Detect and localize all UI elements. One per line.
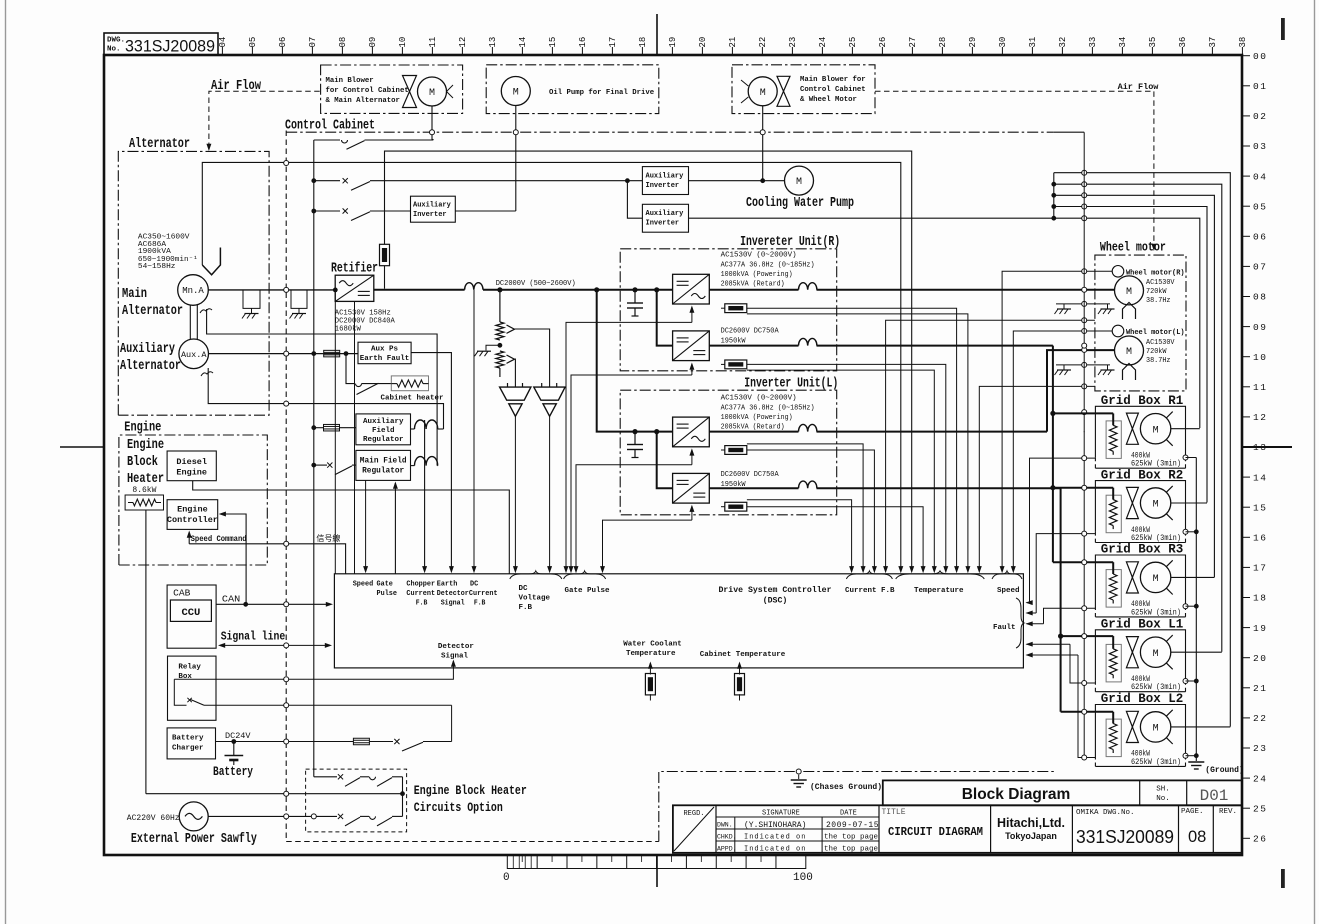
fault wire R2	[1036, 534, 1095, 613]
svg-text:8.6kW: 8.6kW	[132, 486, 156, 495]
svg-text:PAGE.: PAGE.	[1181, 808, 1204, 816]
wire: DC voltage fb B	[549, 416, 551, 571]
svg-text:Invereter Unit(R): Invereter Unit(R)	[740, 235, 840, 250]
ground rail motor R	[1056, 303, 1110, 305]
svg-text:Inverter: Inverter	[413, 211, 447, 219]
svg-text:331SJ20089: 331SJ20089	[1076, 826, 1174, 847]
grid box R3 outline	[1095, 555, 1185, 606]
main blower (right) motor M	[748, 77, 777, 106]
svg-text:& Main Alternator: & Main Alternator	[326, 97, 400, 105]
svg-text:the top page: the top page	[824, 846, 878, 854]
wire: dc bus drop to inverter L	[594, 287, 599, 292]
svg-text:720kW: 720kW	[1146, 288, 1167, 296]
svg-text:21: 21	[728, 37, 738, 48]
auxiliary alternator Aux.A	[179, 339, 209, 369]
svg-text:Diesel: Diesel	[176, 457, 207, 467]
svg-text:Earth Fault: Earth Fault	[360, 355, 410, 363]
ground chain node R3	[1183, 604, 1188, 609]
svg-text:10: 10	[1253, 352, 1267, 363]
svg-text:Gate: Gate	[377, 581, 394, 589]
svg-text:SH.: SH.	[1156, 786, 1170, 794]
svg-text:DC: DC	[470, 581, 479, 589]
voltage detector chopper A	[507, 383, 509, 387]
gate wire L lower	[691, 506, 693, 520]
DC voltage FB brace	[510, 571, 562, 579]
svg-text:AC1530V (0~2000V): AC1530V (0~2000V)	[721, 395, 797, 403]
svg-text:36: 36	[1178, 37, 1188, 48]
air flow dashed duct left	[209, 91, 321, 148]
svg-text:SIGNATURE: SIGNATURE	[762, 810, 800, 818]
svg-text:Alternator: Alternator	[122, 304, 183, 319]
wire: retard output R to grid boxes	[709, 345, 798, 347]
svg-text:2085kVA (Retard): 2085kVA (Retard)	[721, 280, 785, 288]
wire+coil: main field output	[411, 465, 415, 467]
main alternator Mn.A	[178, 275, 209, 306]
svg-text:DC24V: DC24V	[225, 731, 251, 741]
wire: temp L	[979, 386, 1095, 571]
svg-text:625kW (3min): 625kW (3min)	[1131, 684, 1181, 692]
svg-text:331SJ20089: 331SJ20089	[125, 37, 215, 56]
cooling water pump motor M	[785, 166, 814, 195]
wire: Mn.A output to rectifier	[209, 289, 336, 291]
svg-text:400kW: 400kW	[1131, 751, 1150, 759]
svg-text:for Control Cabinet: for Control Cabinet	[326, 87, 409, 95]
svg-text:Alternator: Alternator	[120, 359, 181, 374]
main field regulator box	[356, 450, 411, 480]
signature table	[716, 816, 879, 818]
wire: aux inverter top to cooling pump motor	[689, 180, 785, 182]
auxiliary inverter box (mid bottom)	[642, 204, 688, 232]
relay box	[168, 656, 217, 720]
svg-text:35: 35	[1148, 37, 1158, 48]
title block: Block Diagram row	[883, 780, 1242, 805]
fuse battery	[353, 738, 369, 745]
dc link capacitor L	[632, 429, 637, 434]
svg-text:Inverter: Inverter	[646, 220, 680, 228]
wire: gate pulse up to main field regulator	[394, 483, 396, 574]
inverter unit L dash-dot box	[620, 390, 837, 515]
svg-text:AC377A 36.8Hz (0~185Hz): AC377A 36.8Hz (0~185Hz)	[721, 261, 815, 269]
svg-text:Engine: Engine	[176, 468, 207, 478]
Speed brace right	[992, 571, 1022, 579]
svg-text:F.B: F.B	[519, 604, 533, 612]
svg-text:Signal: Signal	[441, 653, 469, 661]
svg-text:Engine: Engine	[127, 438, 164, 453]
CCU box	[170, 600, 211, 621]
oil pump box	[486, 65, 659, 114]
ground chain vertical	[1195, 458, 1197, 762]
svg-text:Auxiliary: Auxiliary	[646, 173, 685, 181]
CAB box	[167, 585, 216, 648]
wire: aux feed A (dc fused)	[384, 266, 386, 270]
svg-text:400kW: 400kW	[1131, 527, 1150, 535]
svg-text:07: 07	[308, 37, 318, 48]
svg-text:Current: Current	[406, 590, 435, 598]
svg-text:REV.: REV.	[1219, 808, 1237, 816]
main blower (left) motor M	[418, 77, 447, 106]
svg-text:AC1530V (0~2000V): AC1530V (0~2000V)	[721, 252, 797, 260]
svg-text:04: 04	[218, 37, 228, 48]
svg-text:TITLE: TITLE	[882, 808, 906, 817]
svg-text:08: 08	[338, 37, 348, 48]
wire: sensor L lower pair	[747, 500, 852, 571]
svg-text:Detector: Detector	[437, 590, 469, 598]
svg-text:Chopper: Chopper	[406, 581, 435, 589]
current sensor R upper	[725, 304, 747, 313]
svg-text:23: 23	[788, 37, 798, 48]
svg-text:Indicated on: Indicated on	[744, 834, 806, 842]
svg-text:27: 27	[908, 37, 918, 48]
wire: blower L motor to cabinet	[431, 106, 433, 140]
wire: alternator sense to DSC	[333, 288, 338, 293]
svg-text:24: 24	[818, 37, 828, 48]
wire: retard output L to grid boxes	[709, 487, 798, 489]
grid fan R2	[1126, 487, 1138, 518]
air intake funnel	[202, 248, 220, 275]
switch: cooling pump supply	[311, 178, 316, 183]
option row1 switches	[314, 776, 337, 778]
svg-text:CIRCUIT DIAGRAM: CIRCUIT DIAGRAM	[888, 826, 983, 839]
page edge lines	[5, 0, 7, 924]
svg-text:M: M	[1153, 724, 1159, 735]
svg-text:04: 04	[1253, 171, 1267, 182]
grid resistor R2	[1106, 495, 1121, 533]
chopper resistor chain	[497, 287, 502, 292]
svg-text:32: 32	[1058, 37, 1068, 48]
svg-text:F.B: F.B	[474, 600, 486, 608]
svg-text:Signal: Signal	[441, 600, 465, 608]
wire: CAN to engine controller	[221, 514, 246, 604]
svg-text:M: M	[796, 177, 802, 188]
svg-text:26: 26	[1253, 834, 1267, 845]
wire: fan motor R2 supply	[1171, 502, 1207, 504]
oil pump motor M	[501, 77, 530, 106]
svg-text:& Wheel Motor: & Wheel Motor	[800, 96, 857, 104]
svg-text:Cabinet Temperature: Cabinet Temperature	[700, 651, 786, 659]
dc feed to L lower	[654, 429, 659, 434]
svg-text:Signal line: Signal line	[221, 630, 286, 644]
shaft hat R	[1123, 303, 1136, 320]
svg-text:Regulator: Regulator	[363, 436, 404, 444]
gate wire R lower	[691, 364, 693, 375]
svg-text:DATE: DATE	[840, 810, 857, 818]
wrap wire w5 (grid R1 fan)	[1054, 218, 1200, 428]
svg-text:06: 06	[278, 37, 288, 48]
cabinet heater resistor	[391, 376, 428, 391]
svg-text:Block Diagram: Block Diagram	[962, 786, 1071, 803]
svg-text:Charger: Charger	[172, 745, 204, 753]
ground trunk vertical	[1054, 131, 1084, 133]
fault wire L1	[1070, 644, 1095, 683]
svg-text:Main Field: Main Field	[360, 458, 407, 466]
svg-text:20: 20	[698, 37, 708, 48]
voltage detector chopper B	[541, 383, 543, 387]
svg-text:Indicated on: Indicated on	[744, 846, 806, 854]
svg-text:15: 15	[548, 37, 558, 48]
grid box R2 outline	[1095, 481, 1185, 532]
svg-text:M: M	[1126, 287, 1132, 298]
svg-text:Speed Command: Speed Command	[191, 534, 247, 544]
inverter block L upper (DC-AC)	[673, 417, 710, 447]
svg-text:REGD.: REGD.	[683, 810, 704, 818]
wire: Mn.A field lower	[207, 309, 438, 466]
svg-text:Auxiliary: Auxiliary	[363, 418, 404, 426]
svg-text:625kW (3min): 625kW (3min)	[1131, 759, 1181, 767]
svg-text:24: 24	[1253, 773, 1267, 784]
svg-text:31: 31	[1028, 37, 1038, 48]
svg-text:AC377A 36.8Hz (0~185Hz): AC377A 36.8Hz (0~185Hz)	[721, 404, 815, 412]
svg-text:17: 17	[608, 37, 618, 48]
main blower (right) fan	[777, 76, 790, 106]
grid resistor L2	[1106, 719, 1121, 757]
cabinet temperature sensor	[739, 663, 741, 668]
svg-text:Main Blower for: Main Blower for	[800, 76, 866, 84]
wire: drop to aux inverter bottom	[625, 178, 630, 183]
svg-text:Mn.A: Mn.A	[182, 286, 204, 296]
svg-text:M: M	[1153, 425, 1159, 436]
engine block heater option box	[306, 769, 407, 832]
svg-text:(Ground): (Ground)	[1205, 766, 1243, 775]
svg-text:External Power Sawfly: External Power Sawfly	[131, 832, 257, 847]
svg-text:18: 18	[1253, 593, 1267, 604]
svg-text:Control Cabinet: Control Cabinet	[800, 86, 866, 94]
brush mark Mn.A	[200, 309, 212, 313]
wrap wire w2 (grid L1 fan)	[1054, 184, 1222, 652]
svg-text:54~158Hz: 54~158Hz	[138, 263, 176, 271]
svg-text:Drive System Controller: Drive System Controller	[718, 585, 831, 595]
svg-text:400kW: 400kW	[1131, 453, 1150, 461]
svg-text:25: 25	[848, 37, 858, 48]
(Ground) symbol	[1188, 762, 1204, 769]
svg-text:Current F.B: Current F.B	[845, 587, 895, 595]
svg-text:Box: Box	[178, 673, 192, 681]
svg-text:TokyoJapan: TokyoJapan	[1005, 831, 1057, 841]
top ruler ticks 04-38	[218, 37, 1248, 55]
svg-text:DWG.: DWG.	[107, 37, 125, 45]
svg-text:No.: No.	[107, 46, 121, 54]
wire: dc current fb tap	[473, 290, 475, 571]
svg-text:Wheel motor(R): Wheel motor(R)	[1126, 270, 1185, 278]
svg-text:Gate Pulse: Gate Pulse	[565, 587, 611, 595]
fan bus riser	[1053, 173, 1055, 219]
ground chain node R1	[1183, 455, 1188, 460]
svg-text:12: 12	[1253, 412, 1267, 423]
right ruler ticks 00-26	[1242, 51, 1267, 845]
svg-text:(DSC): (DSC)	[763, 596, 788, 606]
grid box L1 outline	[1095, 630, 1185, 681]
svg-text:09: 09	[1253, 322, 1267, 333]
battery charger box	[167, 728, 215, 759]
wheel motor L M	[1115, 336, 1144, 365]
wire: heater return	[146, 793, 403, 795]
svg-text:33: 33	[1088, 37, 1098, 48]
svg-text:CAB: CAB	[173, 588, 190, 599]
title block: main row	[673, 805, 1242, 853]
svg-text:17: 17	[1253, 563, 1267, 574]
svg-text:OMIKA DWG.No.: OMIKA DWG.No.	[1076, 809, 1135, 817]
svg-text:Engine: Engine	[177, 505, 208, 515]
svg-text:M: M	[1126, 347, 1132, 358]
wire: chopper current fb	[424, 420, 426, 571]
chassis ground of cabinet	[796, 769, 801, 774]
svg-text:F.B: F.B	[416, 600, 428, 608]
wire: aux feed B from main alternator	[202, 162, 901, 571]
wire: diesel engine speed to DSC	[193, 481, 510, 574]
svg-text:10: 10	[398, 37, 408, 48]
svg-text:AC220V 60Hz: AC220V 60Hz	[127, 814, 180, 823]
svg-text:Cooling Water Pump: Cooling Water Pump	[746, 196, 854, 211]
svg-text:23: 23	[1253, 743, 1267, 754]
svg-text:M: M	[513, 88, 519, 99]
svg-text:Auxiliary: Auxiliary	[646, 210, 685, 218]
svg-text:11: 11	[428, 37, 438, 48]
svg-text:22: 22	[758, 37, 768, 48]
switch: blower L supply	[314, 139, 340, 141]
svg-text:Main: Main	[122, 287, 147, 302]
temp arrows from aux feeds	[898, 566, 903, 573]
DWG number box	[104, 33, 218, 55]
control cabinet boundary (dash-dot)	[286, 131, 659, 842]
current sensor R lower	[725, 360, 747, 369]
alternator dash-dot box	[118, 151, 269, 415]
wire: speed L	[1013, 331, 1112, 571]
svg-text:Oil Pump for Final Drive: Oil Pump for Final Drive	[549, 89, 655, 97]
svg-text:Inverter: Inverter	[646, 182, 680, 190]
svg-text:信号線: 信号線	[316, 533, 340, 544]
ground chain node R2	[1183, 529, 1188, 534]
svg-text:18: 18	[638, 37, 648, 48]
svg-text:Water Coolant: Water Coolant	[623, 641, 682, 649]
wire: engine block heater down	[145, 510, 147, 794]
wire: aux inverter bottom output to fan bus	[689, 217, 1054, 219]
svg-text:07: 07	[1253, 262, 1267, 273]
svg-text:D01: D01	[1200, 787, 1229, 805]
svg-text:28: 28	[938, 37, 948, 48]
grid box L2 outline	[1095, 705, 1185, 756]
svg-text:Voltage: Voltage	[519, 595, 551, 603]
wire: temp R	[886, 320, 1095, 571]
svg-text:AC1530V 158Hz: AC1530V 158Hz	[335, 310, 391, 318]
svg-text:Cabinet heater: Cabinet heater	[381, 395, 444, 403]
svg-text:Speed: Speed	[997, 587, 1020, 595]
svg-text:03: 03	[1253, 141, 1267, 152]
svg-text:15: 15	[1253, 502, 1267, 513]
grid fan motor R1	[1140, 412, 1172, 446]
wire: external power to option row2	[208, 815, 337, 817]
wire: DC24V line	[216, 741, 354, 743]
wire: AC output L to wheel motor L	[709, 431, 798, 433]
option connector vertical	[402, 777, 404, 817]
svg-text:DC2000V DC840A: DC2000V DC840A	[335, 318, 396, 326]
svg-text:CAN: CAN	[222, 594, 240, 605]
battery symbol	[233, 742, 235, 756]
svg-text:12: 12	[458, 37, 468, 48]
wire: earth fault to DSC earth detector	[411, 353, 451, 571]
scale bar	[507, 855, 806, 869]
svg-text:DC2600V DC750A: DC2600V DC750A	[721, 328, 779, 336]
svg-text:Earth: Earth	[437, 581, 458, 589]
dc link capacitor R	[632, 287, 637, 292]
inverter block L lower (chopper)	[673, 473, 710, 503]
current sensor L lower	[725, 502, 747, 511]
water coolant sensor	[649, 663, 651, 668]
svg-text:Speed: Speed	[353, 581, 374, 589]
svg-text:AC1530V: AC1530V	[1146, 339, 1175, 347]
svg-text:38.7Hz: 38.7Hz	[1146, 297, 1171, 305]
svg-text:37: 37	[1208, 37, 1218, 48]
main blower (right) box	[732, 65, 875, 114]
brush mark Aux.A	[201, 372, 213, 376]
svg-text:M: M	[1153, 649, 1159, 660]
Gate pulse brace	[564, 571, 606, 579]
svg-text:Pulse: Pulse	[377, 590, 398, 598]
wire: speed fb from regulator down	[365, 480, 367, 571]
svg-text:AC1530V: AC1530V	[1146, 279, 1175, 287]
svg-text:13: 13	[488, 37, 498, 48]
svg-text:21: 21	[1253, 683, 1267, 694]
svg-text:08: 08	[1253, 292, 1267, 303]
Temperature brace	[896, 571, 985, 579]
registration mark top right	[1281, 18, 1285, 40]
svg-text:(Y.SHINOHARA): (Y.SHINOHARA)	[744, 821, 806, 830]
svg-text:00: 00	[1253, 51, 1267, 62]
wire: speed R	[1002, 271, 1112, 571]
grid resistor L1	[1106, 644, 1121, 682]
svg-text:Fault: Fault	[993, 624, 1016, 632]
engine dash-dot box	[119, 435, 267, 565]
fuse sensor on aux feed A	[380, 244, 390, 265]
wire: sensor R upper pair	[747, 308, 957, 571]
grid fan motor L1	[1140, 635, 1172, 669]
wire: feed L1	[1061, 635, 1114, 637]
chopper mid ground	[486, 345, 500, 350]
svg-text:1000kVA (Powering): 1000kVA (Powering)	[721, 414, 793, 422]
svg-text:400kW: 400kW	[1131, 601, 1150, 609]
svg-text:Air Flow: Air Flow	[1118, 82, 1160, 92]
auxiliary inverter box (left)	[411, 196, 456, 222]
svg-text:Wheel motor: Wheel motor	[1100, 241, 1166, 255]
svg-text:1000kVA (Powering): 1000kVA (Powering)	[721, 271, 793, 279]
svg-text:1680kW: 1680kW	[335, 326, 362, 334]
DC bus main	[374, 289, 465, 291]
wire: feed R3	[1053, 561, 1113, 563]
inverter block R lower (chopper)	[673, 331, 710, 361]
svg-text:Inverter Unit(L): Inverter Unit(L)	[744, 377, 838, 392]
wire: fan motor L1 supply	[1171, 651, 1222, 653]
svg-text:22: 22	[1253, 713, 1267, 724]
svg-text:Battery: Battery	[213, 764, 253, 779]
wire+coil: aux field output	[411, 428, 415, 430]
svg-text:05: 05	[1253, 201, 1267, 212]
fault wire L2	[1078, 655, 1095, 758]
svg-text:Heater: Heater	[127, 472, 164, 487]
svg-text:Wheel motor(L): Wheel motor(L)	[1126, 329, 1185, 337]
aux ps earth fault box	[358, 342, 411, 364]
svg-text:38: 38	[1238, 37, 1248, 48]
main blower (left) box	[321, 65, 463, 113]
wire: blower R motor down to cooling pump line	[762, 106, 764, 181]
svg-text:Detector: Detector	[438, 643, 474, 651]
svg-text:Relay: Relay	[178, 664, 201, 672]
wire: sensor L upper pair	[747, 444, 863, 571]
wire: feed R2	[1053, 487, 1113, 489]
svg-text:08: 08	[1188, 828, 1206, 846]
svg-text:29: 29	[968, 37, 978, 48]
svg-text:100: 100	[793, 872, 813, 884]
chopper tap wires to detectors	[515, 329, 550, 387]
svg-text:CHKD.: CHKD.	[717, 834, 737, 841]
svg-text:DWN.: DWN.	[717, 822, 733, 829]
